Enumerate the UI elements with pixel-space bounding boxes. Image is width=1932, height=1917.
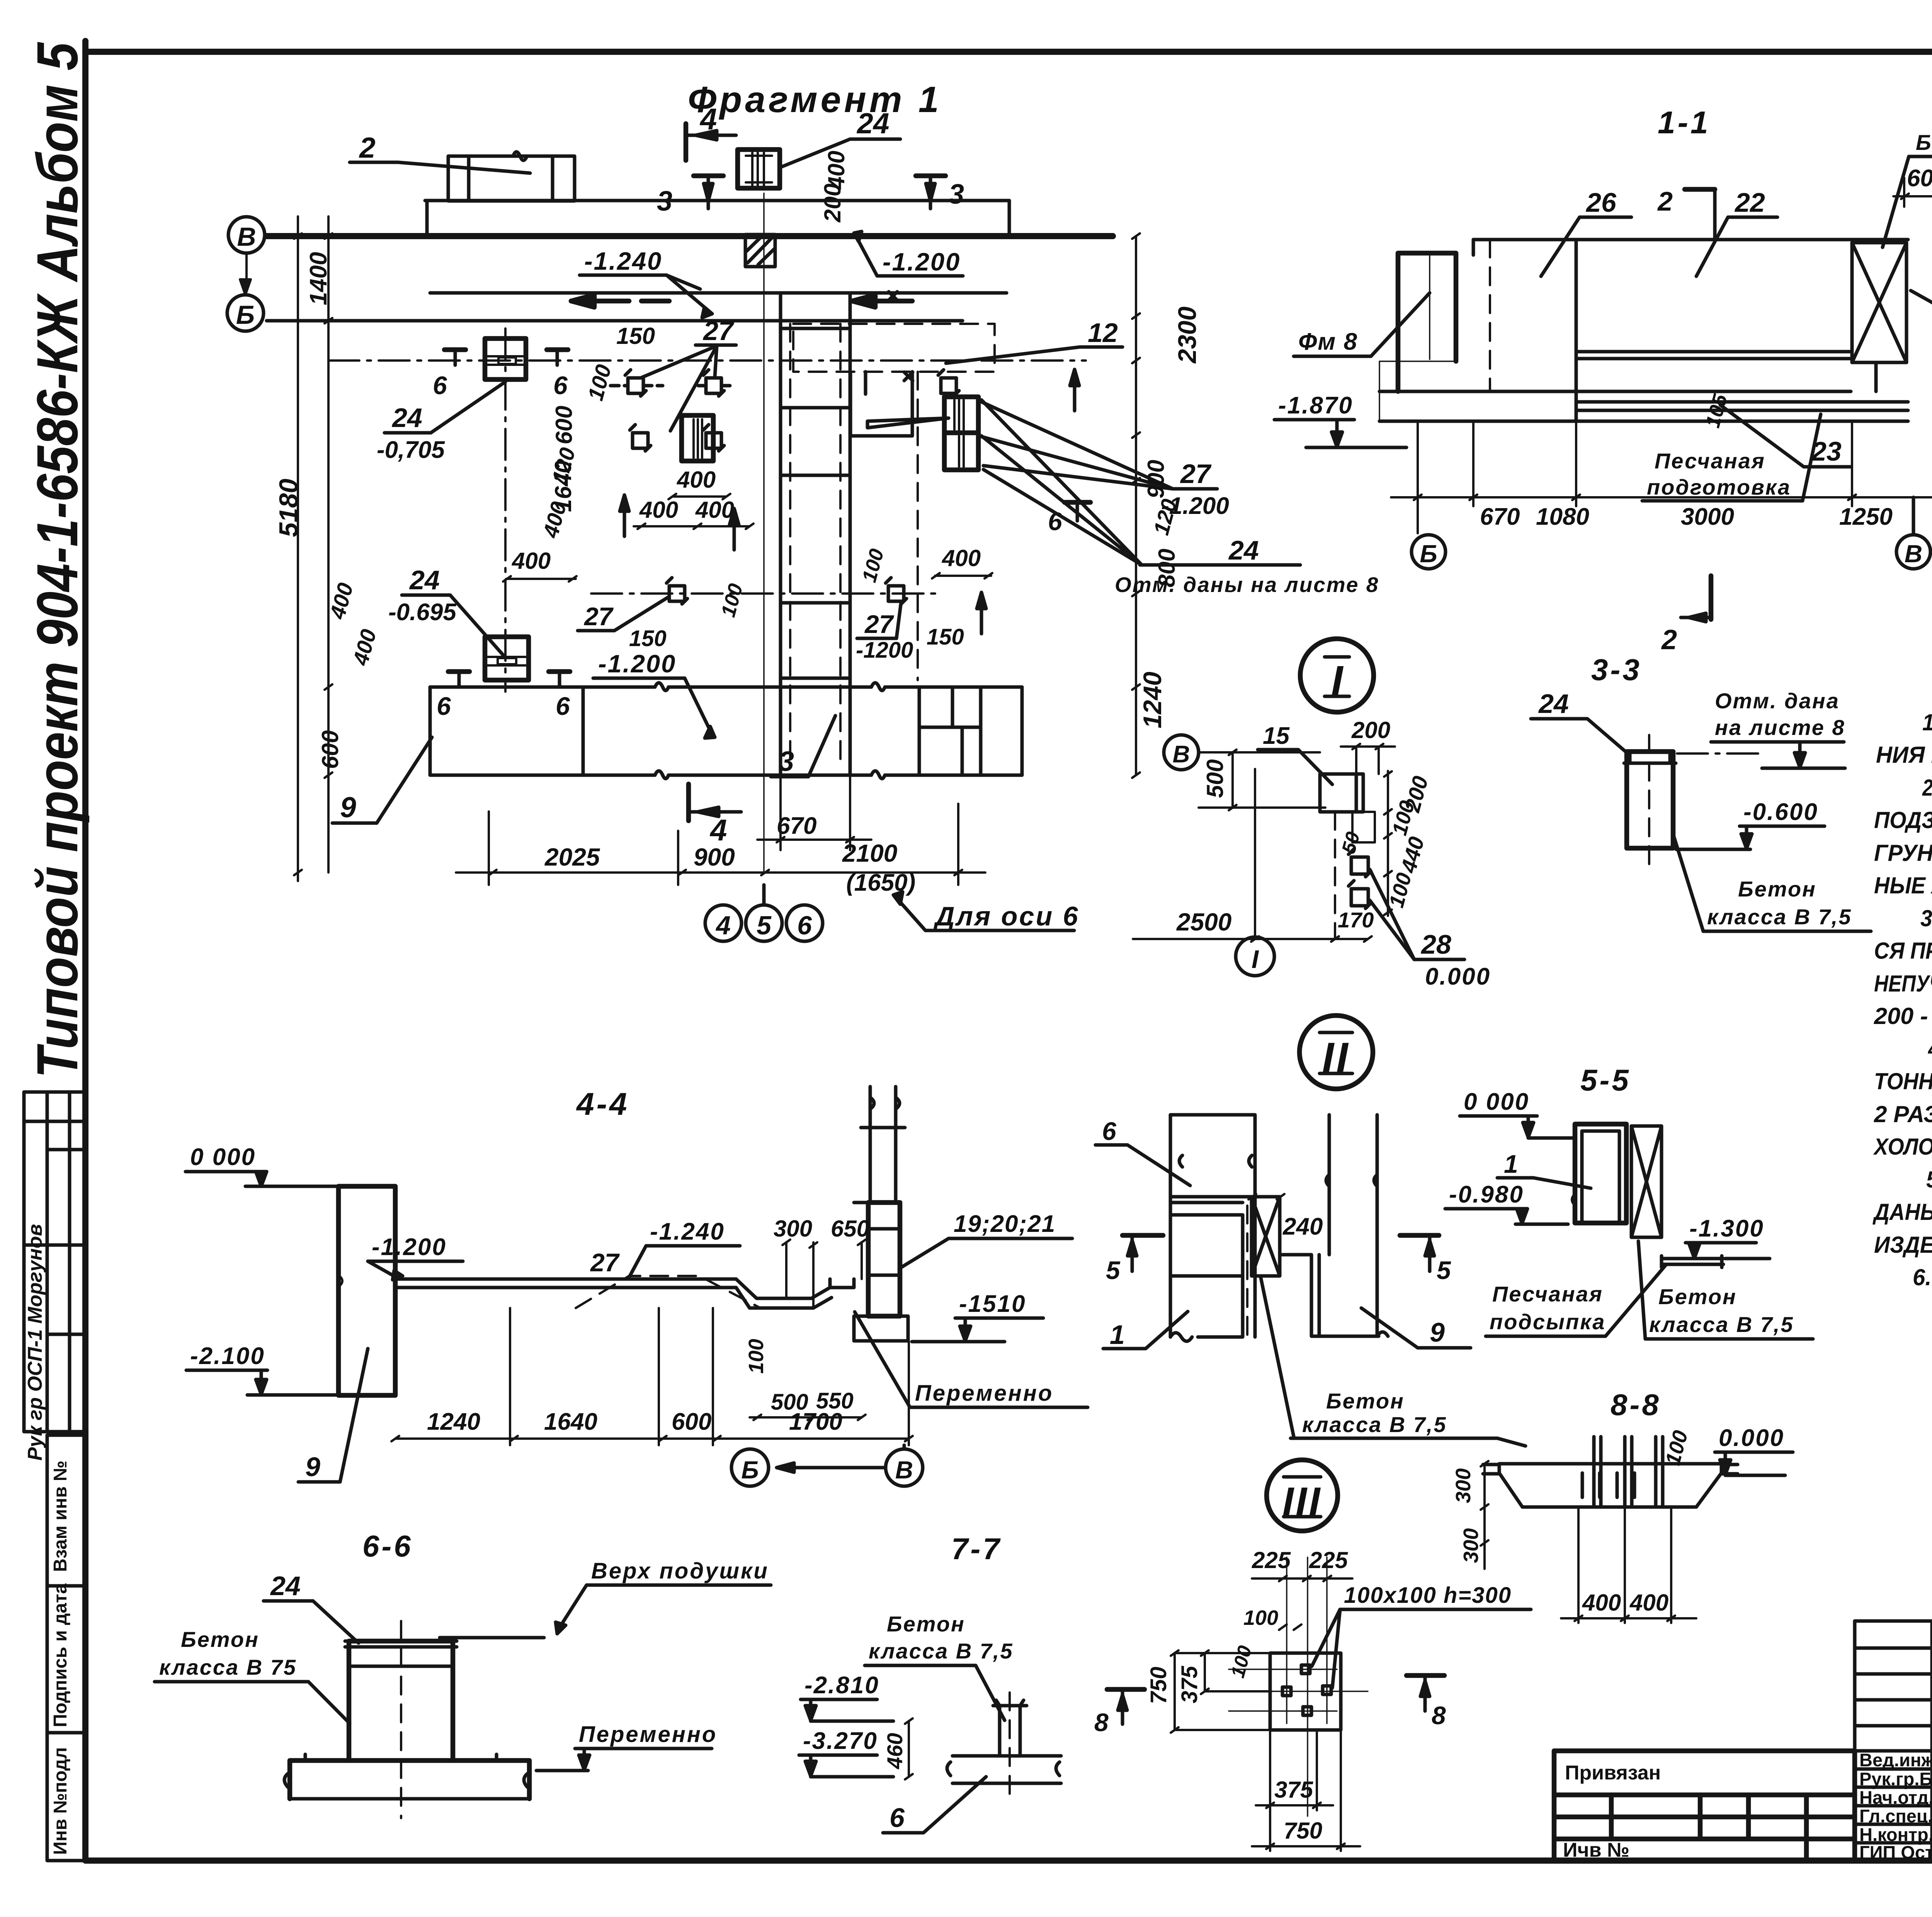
footing right <box>854 1316 908 1341</box>
svg-text:В: В <box>1905 540 1922 568</box>
svg-text:600: 600 <box>1907 165 1932 192</box>
svg-text:1240: 1240 <box>427 1408 480 1435</box>
axis bubbles <box>731 1445 923 1486</box>
svg-text:2025: 2025 <box>544 843 600 871</box>
svg-text:класса В 7,5: класса В 7,5 <box>1707 905 1852 929</box>
bottom band <box>430 683 1022 779</box>
svg-text:Взам инв №: Взам инв № <box>50 1461 71 1572</box>
svg-text:5-5: 5-5 <box>1580 1063 1631 1097</box>
svg-text:-0.600: -0.600 <box>1743 799 1818 825</box>
svg-text:300: 300 <box>774 1216 812 1242</box>
svg-text:Нач.отд.Саакьян: Нач.отд.Саакьян <box>1859 1787 1932 1808</box>
svg-text:-1.870: -1.870 <box>1278 392 1353 419</box>
svg-text:класса В 7,5: класса В 7,5 <box>1302 1412 1447 1437</box>
svg-text:4: 4 <box>699 102 717 136</box>
left wall upper <box>1170 1115 1255 1337</box>
svg-text:-3.270: -3.270 <box>803 1728 878 1754</box>
section marker 4 top <box>684 124 689 160</box>
thin gridlines <box>1217 1557 1368 1816</box>
svg-text:6: 6 <box>433 371 447 400</box>
svg-text:Б: Б <box>1420 540 1437 568</box>
svg-text:1: 1 <box>1504 1150 1518 1178</box>
svg-text:24: 24 <box>391 403 422 433</box>
svg-text:27: 27 <box>864 610 895 638</box>
svg-text:100: 100 <box>1243 1606 1278 1630</box>
svg-text:-1200: -1200 <box>856 638 913 663</box>
main plate <box>1270 1653 1341 1730</box>
svg-text:ТОННЫХ КОНСТРУКЦНЙ, НАХОДЯЩН: ТОННЫХ КОНСТРУКЦНЙ, НАХОДЯЩНЕСЯ В ГРУНТЕ… <box>1874 1068 1932 1094</box>
svg-text:-2.810: -2.810 <box>804 1672 879 1699</box>
svg-text:200: 200 <box>820 184 845 223</box>
T marks and 6 labels <box>444 347 568 352</box>
svg-text:1-1: 1-1 <box>1658 105 1711 140</box>
main top line <box>1473 240 1908 255</box>
svg-text:24: 24 <box>270 1571 301 1601</box>
signature grid left part <box>1855 1621 1932 1861</box>
svg-text:0 000: 0 000 <box>1464 1089 1529 1115</box>
svg-text:1250: 1250 <box>1839 503 1893 530</box>
svg-text:460: 460 <box>883 1733 907 1769</box>
anchor box 24/-0.695 <box>485 637 529 680</box>
svg-text:900: 900 <box>1143 460 1169 498</box>
svg-text:ДАНЫ ОТМЕТКН НИЗА КОНСТРУКЦ: ДАНЫ ОТМЕТКН НИЗА КОНСТРУКЦНЙ , А ДЛЯ ОП… <box>1872 1199 1932 1225</box>
svg-text:Б: Б <box>236 300 255 330</box>
svg-text:Песчаная: Песчаная <box>1492 1282 1603 1306</box>
grid bubble Б <box>227 295 264 331</box>
svg-text:600: 600 <box>672 1408 711 1435</box>
svg-text:8-8: 8-8 <box>1611 1388 1661 1422</box>
svg-text:В: В <box>237 222 256 252</box>
section 1-1 <box>1274 105 1932 655</box>
svg-text:2300: 2300 <box>1173 306 1201 364</box>
node III bubble <box>1267 1460 1338 1531</box>
floor slab <box>395 1279 854 1308</box>
north arrows <box>620 369 1079 634</box>
lower attachment boxes <box>47 1435 85 1861</box>
svg-text:4-4: 4-4 <box>576 1087 629 1122</box>
svg-text:3: 3 <box>779 746 794 777</box>
canal verticals <box>781 293 850 775</box>
section 4-4 <box>185 1087 1088 1486</box>
svg-text:СЯ ПРОНЗВОДИТЬ ПОСЛЕ МОНТАЖ: СЯ ПРОНЗВОДИТЬ ПОСЛЕ МОНТАЖА ПЛНТ ПЕРЕКР… <box>1874 938 1932 964</box>
dashed vertical <box>1489 240 1491 391</box>
svg-text:400: 400 <box>942 545 981 571</box>
svg-text:-0.980: -0.980 <box>1449 1181 1524 1208</box>
svg-text:Фрагмент 1: Фрагмент 1 <box>688 79 942 120</box>
svg-text:1700: 1700 <box>789 1408 842 1435</box>
small anchors <box>1282 1665 1331 1715</box>
sections 6-6 7-7 8-8 node III <box>155 1388 1793 1851</box>
node II bubble <box>1299 1015 1373 1089</box>
svg-text:Бетон: Бетон <box>887 1612 965 1636</box>
plan band line y750 <box>430 291 1007 295</box>
column <box>993 1700 1027 1756</box>
svg-text:Бетон: Бетон <box>1658 1284 1737 1309</box>
svg-text:27: 27 <box>583 602 614 631</box>
svg-text:400: 400 <box>512 548 551 574</box>
svg-text:4: 4 <box>715 911 731 940</box>
svg-text:НИЯ И ФУНДАМЕНТНЫХ БАЛОК ДА: НИЯ И ФУНДАМЕНТНЫХ БАЛОК ДАНА НА ЛИСТЕ 4… <box>1876 742 1932 768</box>
small anchor squares <box>1349 849 1371 908</box>
svg-text:6-6: 6-6 <box>362 1529 413 1563</box>
svg-text:5: 5 <box>1106 1256 1121 1284</box>
left wall 9 <box>338 1186 395 1395</box>
svg-text:-1.200: -1.200 <box>598 650 676 678</box>
svg-text:3-3: 3-3 <box>1591 653 1642 687</box>
x-box <box>1252 1197 1280 1276</box>
svg-text:Отм. дана: Отм. дана <box>1715 689 1840 713</box>
svg-text:15: 15 <box>1263 723 1290 749</box>
svg-text:375: 375 <box>1274 1777 1314 1803</box>
node II and section 5-5 <box>1095 1015 1813 1446</box>
upper attachment box <box>24 1092 85 1432</box>
svg-text:22: 22 <box>1734 187 1765 218</box>
svg-text:24: 24 <box>409 565 440 595</box>
anchor box 27 mid <box>682 415 713 461</box>
left margin column <box>24 42 90 1861</box>
anchor block 24 top <box>738 150 780 188</box>
vertical to node circle <box>1254 769 1256 935</box>
svg-text:5: 5 <box>757 911 772 940</box>
svg-text:19;20;21: 19;20;21 <box>954 1211 1056 1237</box>
svg-text:Привязан: Привязан <box>1565 1762 1661 1784</box>
svg-text:28: 28 <box>1420 929 1451 959</box>
notes <box>1872 709 1932 1290</box>
svg-text:3: 3 <box>949 179 964 210</box>
svg-text:500: 500 <box>1202 759 1228 798</box>
svg-text:670: 670 <box>777 813 816 839</box>
svg-text:9: 9 <box>340 791 356 823</box>
node I and section 3-3 <box>1133 639 1871 990</box>
node marker circle 1 <box>1236 937 1274 976</box>
svg-text:3. ОБРАТНУЮ ЗАСЫПКУ ПАЗУХ У: 3. ОБРАТНУЮ ЗАСЫПКУ ПАЗУХ У СТЕНОК КАНАЛ… <box>1920 905 1932 931</box>
svg-text:750: 750 <box>1284 1818 1322 1844</box>
8 flags <box>1107 1687 1145 1692</box>
svg-text:400: 400 <box>677 467 716 493</box>
svg-text:Переменно: Переменно <box>579 1722 717 1747</box>
svg-text:0.000: 0.000 <box>1719 1425 1784 1451</box>
svg-text:600: 600 <box>551 406 577 444</box>
svg-text:400: 400 <box>1629 1590 1668 1616</box>
dashed center <box>1246 1206 1248 1335</box>
svg-text:6: 6 <box>437 692 451 720</box>
svg-text:26: 26 <box>1585 187 1617 218</box>
right rotated dims <box>1384 771 1392 916</box>
svg-text:-2.100: -2.100 <box>190 1343 265 1369</box>
right wall steps <box>1280 1115 1388 1336</box>
svg-text:150: 150 <box>927 624 964 650</box>
svg-text:400: 400 <box>695 497 734 523</box>
grid bubble B <box>1164 735 1199 770</box>
svg-text:6: 6 <box>1102 1117 1117 1145</box>
section marker 3 left <box>694 173 723 179</box>
wall <box>1575 1124 1626 1223</box>
svg-text:12: 12 <box>1088 318 1118 348</box>
dashed center <box>1334 812 1336 939</box>
big box 22 <box>1576 240 1852 421</box>
svg-text:-1.200: -1.200 <box>883 248 961 276</box>
svg-text:9: 9 <box>305 1452 320 1482</box>
svg-text:27: 27 <box>1180 459 1212 489</box>
svg-text:0.000: 0.000 <box>1425 963 1491 990</box>
anchor pins <box>1594 1437 1663 1507</box>
svg-text:(1650): (1650) <box>846 869 915 896</box>
svg-text:Бетон: Бетон <box>181 1627 259 1652</box>
svg-text:ПОДЗЕМНЫХ КОНСТРУКЦИЙ ВЫПОЛН: ПОДЗЕМНЫХ КОНСТРУКЦИЙ ВЫПОЛНЯТЬ ПУТЕМ ВТ… <box>1874 807 1932 833</box>
svg-text:ИЗДЕЛНЙ - ОТМЕТКН ВЕРХА.: ИЗДЕЛНЙ - ОТМЕТКН ВЕРХА. <box>1874 1232 1932 1258</box>
svg-text:670: 670 <box>1480 503 1520 530</box>
section marker 3 right <box>916 173 946 179</box>
svg-text:7-7: 7-7 <box>951 1532 1002 1566</box>
base slab <box>290 1761 529 1799</box>
svg-text:8: 8 <box>1094 1708 1109 1737</box>
svg-text:Бетон: Бетон <box>1738 877 1816 901</box>
trench bottom detail <box>830 1279 854 1288</box>
svg-text:100: 100 <box>745 1339 768 1374</box>
left dim verticals <box>294 216 332 881</box>
svg-text:ГРУНТ ЩЕБНЯ ИЛИ ГРАВНЯ КРУ: ГРУНТ ЩЕБНЯ ИЛИ ГРАВНЯ КРУПНОСТЬЮ 40-60М… <box>1874 840 1932 866</box>
svg-text:НЫЕ ЖЕЛЕЗОБЕТОННЫЕ -ИЗ ПЕСК: НЫЕ ЖЕЛЕЗОБЕТОННЫЕ -ИЗ ПЕСКА ТОЛЩННОЙ 10… <box>1874 872 1932 898</box>
svg-text:Инв №подл: Инв №подл <box>50 1747 71 1855</box>
pedestal <box>1627 752 1673 848</box>
fm8 tower <box>1398 253 1456 391</box>
svg-text:225: 225 <box>1309 1547 1349 1573</box>
svg-text:650: 650 <box>831 1216 869 1242</box>
svg-text:5180: 5180 <box>274 479 303 537</box>
dim chain <box>1391 421 1932 533</box>
svg-text:класса В 7,5: класса В 7,5 <box>1649 1312 1794 1337</box>
svg-text:6: 6 <box>556 692 570 720</box>
node I bubble <box>1300 639 1374 712</box>
footing right <box>1662 1256 1723 1267</box>
svg-text:Для оси 6: Для оси 6 <box>933 901 1080 931</box>
svg-text:1640: 1640 <box>544 1408 597 1435</box>
svg-text:0 000: 0 000 <box>190 1144 256 1170</box>
svg-text:900: 900 <box>694 843 735 871</box>
axis bubbles <box>1412 497 1930 569</box>
svg-text:Б: Б <box>741 1456 759 1484</box>
svg-text:9: 9 <box>1430 1317 1445 1347</box>
svg-text:225: 225 <box>1252 1547 1291 1573</box>
svg-text:В: В <box>895 1456 913 1484</box>
direction arrows dashed <box>571 295 912 307</box>
bottom dim chain <box>456 804 985 885</box>
svg-text:2500: 2500 <box>1176 908 1231 936</box>
svg-text:200: 200 <box>1351 717 1390 743</box>
main plan top line <box>425 201 1009 236</box>
svg-text:2 РАЗА ГОРЯЧНМ БНТУМОМ МАРК: 2 РАЗА ГОРЯЧНМ БНТУМОМ МАРКН БН 70/30 (Г… <box>1874 1101 1932 1127</box>
hash squares row 2 <box>630 425 724 451</box>
svg-text:150: 150 <box>629 626 667 651</box>
svg-text:класса В 75: класса В 75 <box>159 1655 297 1679</box>
anchor box 24/-0.705 <box>485 338 526 379</box>
svg-text:Ичв №: Ичв № <box>1563 1839 1629 1861</box>
svg-text:1080: 1080 <box>1536 503 1589 530</box>
section 2 marker bottom <box>1709 576 1714 619</box>
svg-text:Отм. даны на листе 8: Отм. даны на листе 8 <box>1115 573 1379 597</box>
svg-text:-0.695: -0.695 <box>388 599 457 626</box>
svg-text:300: 300 <box>1459 1528 1483 1563</box>
svg-text:Фм 8: Фм 8 <box>1298 328 1358 355</box>
svg-text:Вед.инж.Горская: Вед.инж.Горская <box>1859 1750 1932 1770</box>
axis line B heavy <box>267 233 1113 239</box>
svg-text:Песчаная: Песчаная <box>1655 449 1765 473</box>
svg-text:Гл.спец.Боярченко: Гл.спец.Боярченко <box>1859 1806 1932 1826</box>
svg-text:150: 150 <box>616 323 655 349</box>
svg-text:27: 27 <box>590 1248 620 1277</box>
hash squares row 1 <box>611 370 732 396</box>
svg-text:2100: 2100 <box>842 839 897 867</box>
svg-text:600: 600 <box>317 730 343 769</box>
slab <box>947 1756 1061 1783</box>
plate profile <box>1483 1464 1738 1507</box>
svg-text:6: 6 <box>889 1803 905 1833</box>
svg-text:1: 1 <box>1110 1320 1125 1350</box>
bottom hash squares <box>667 578 906 604</box>
fragment 1 plan <box>227 79 1379 941</box>
section marker 4 bottom <box>686 784 691 821</box>
x-box <box>1852 243 1906 391</box>
right dim column <box>1132 233 1140 778</box>
dim chain <box>391 1308 913 1445</box>
sand layers <box>1379 391 1908 421</box>
svg-text:Рук гр ОСП-1 Моргунов: Рук гр ОСП-1 Моргунов <box>24 1224 46 1461</box>
top equipment rect <box>448 152 575 201</box>
svg-text:подсыпка: подсыпка <box>1490 1310 1605 1334</box>
svg-text:300: 300 <box>1452 1468 1475 1503</box>
svg-text:-1.240: -1.240 <box>584 247 662 275</box>
svg-text:ГИП Осташевский: ГИП Осташевский <box>1859 1842 1932 1863</box>
5 flags <box>1122 1233 1163 1238</box>
svg-text:I: I <box>1252 945 1259 973</box>
svg-text:ХОЛОДНОЙ БИТУМНОЙ ГРУНТОВКЕ.: ХОЛОДНОЙ БИТУМНОЙ ГРУНТОВКЕ. <box>1873 1133 1932 1160</box>
svg-text:2: 2 <box>359 131 376 164</box>
svg-text:НЕПУЧИННСТЫМ ГРУНТОМ С ПОСЛ: НЕПУЧИННСТЫМ ГРУНТОМ С ПОСЛОЙНЫМ ТРАМБОВ… <box>1874 970 1932 997</box>
horizontal axis dashdot <box>328 328 1086 692</box>
svg-text:5: 5 <box>1437 1256 1451 1284</box>
main box <box>1320 774 1375 842</box>
svg-text:-1.240: -1.240 <box>650 1218 725 1245</box>
svg-text:1400: 1400 <box>305 252 332 305</box>
item 12 dashed outline <box>793 324 995 372</box>
svg-text:Верх подушки: Верх подушки <box>591 1558 769 1584</box>
axis bubbles 4 5 6 <box>705 885 823 941</box>
svg-text:6: 6 <box>797 911 812 940</box>
svg-text:В: В <box>1173 741 1190 768</box>
svg-text:24: 24 <box>856 107 889 139</box>
svg-text:6: 6 <box>553 371 568 400</box>
hatched column <box>745 235 775 267</box>
svg-text:на листе 8: на листе 8 <box>1715 715 1845 740</box>
title block <box>1554 1561 1932 1863</box>
6 flag right <box>1065 500 1090 505</box>
svg-text:400: 400 <box>639 497 678 523</box>
svg-text:3000: 3000 <box>1681 503 1734 530</box>
svg-text:Бетон класса В7.5: Бетон класса В7.5 <box>1916 130 1932 155</box>
svg-text:240: 240 <box>1282 1213 1323 1240</box>
tall box 27/-1.200 right <box>944 397 978 470</box>
svg-text:1240: 1240 <box>1138 672 1167 728</box>
svg-text:4: 4 <box>709 813 727 847</box>
svg-text:400: 400 <box>1582 1590 1621 1616</box>
svg-text:100x100 h=300: 100x100 h=300 <box>1344 1583 1512 1608</box>
axis line Б <box>267 319 963 323</box>
svg-text:Подпись и дата: Подпись и дата <box>50 1584 71 1727</box>
svg-text:2. ПОДГОТОВКУ ОСНОВАНИЯ ПОД: 2. ПОДГОТОВКУ ОСНОВАНИЯ ПОД МОНОЛИТНЫЕ Э… <box>1922 775 1932 801</box>
svg-text:4. НАРУЖНЫЕ ПОВЕРХНОСТН СТЕН: 4. НАРУЖНЫЕ ПОВЕРХНОСТН СТЕН СБОРНЫХ ЖЕЛ… <box>1928 1036 1932 1062</box>
svg-text:подготовка: подготовка <box>1647 475 1791 499</box>
svg-text:200 - 300ММ.: 200 - 300ММ. <box>1874 1003 1932 1029</box>
svg-text:класса В 7,5: класса В 7,5 <box>869 1639 1014 1663</box>
svg-text:5. НА СХЕМЕ РАСПОЛОЖЕНИЯ ПО: 5. НА СХЕМЕ РАСПОЛОЖЕНИЯ ПОДЗЕМНЫХ КОНСТ… <box>1926 1166 1932 1192</box>
axis 5 vertical thin <box>763 193 765 873</box>
svg-text:-1510: -1510 <box>959 1291 1026 1317</box>
svg-text:-0,705: -0,705 <box>377 437 445 463</box>
svg-text:170: 170 <box>1338 908 1374 932</box>
svg-text:Типовой проект 904-1-6586-КЖ: Типовой проект 904-1-6586-КЖ Альбом 5 <box>25 42 90 1078</box>
pedestal <box>349 1641 453 1761</box>
grid bubble В <box>228 217 265 253</box>
svg-text:8: 8 <box>1432 1701 1446 1730</box>
svg-text:Рук.гр.Бескоровайный: Рук.гр.Бескоровайный <box>1859 1769 1932 1789</box>
svg-text:Переменно: Переменно <box>915 1381 1053 1406</box>
svg-text:24: 24 <box>1228 535 1259 565</box>
svg-text:2: 2 <box>1657 186 1673 216</box>
right wall 19 20 21 <box>861 1087 905 1203</box>
svg-text:1. СХЕМА РАСПОЛОЖЕНИЯ ФУНДАМ: 1. СХЕМА РАСПОЛОЖЕНИЯ ФУНДАМЕНТОВ ПОД КА… <box>1922 709 1932 735</box>
svg-text:750: 750 <box>1146 1667 1171 1704</box>
svg-text:375: 375 <box>1177 1665 1202 1703</box>
svg-text:-1.300: -1.300 <box>1689 1215 1764 1242</box>
left small stamp <box>1554 1751 1855 1861</box>
svg-text:Бетон: Бетон <box>1326 1389 1405 1413</box>
wire axis B to Б arrow <box>240 235 298 295</box>
svg-text:6. СЕЧЕННЯ 1-1 ; 7-7 И УЗЛ: 6. СЕЧЕННЯ 1-1 ; 7-7 И УЗЛЫ I-III ЗАМАРК… <box>1913 1264 1932 1290</box>
svg-text:2: 2 <box>1661 624 1677 655</box>
left wall lower <box>1170 1215 1243 1341</box>
svg-text:27: 27 <box>702 316 735 346</box>
svg-text:24: 24 <box>1538 689 1569 719</box>
svg-text:-1.200: -1.200 <box>372 1234 447 1260</box>
